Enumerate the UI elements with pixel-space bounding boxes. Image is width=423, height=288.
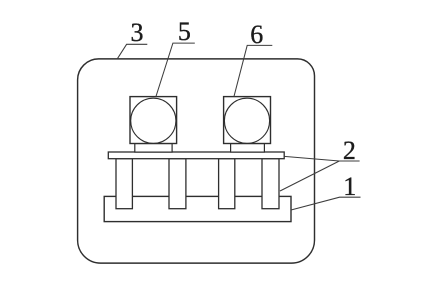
svg-text:1: 1	[343, 172, 356, 201]
svg-text:3: 3	[131, 18, 144, 47]
svg-text:5: 5	[178, 17, 191, 46]
svg-text:2: 2	[343, 136, 356, 165]
svg-text:6: 6	[250, 20, 263, 49]
